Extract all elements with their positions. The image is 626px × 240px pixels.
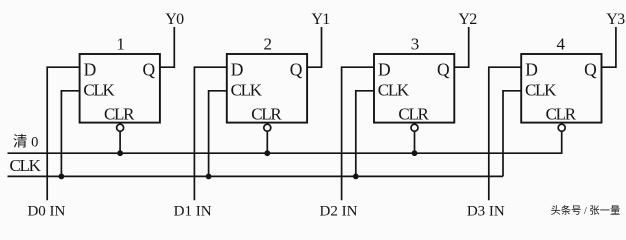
svg-text:Q: Q xyxy=(290,60,303,80)
junction dot CLK bus / U2 CLK xyxy=(206,174,212,180)
wire D2 input to U3.D xyxy=(342,67,374,200)
svg-text:CLK: CLK xyxy=(525,80,557,99)
wire U4.Q to Y3 xyxy=(602,27,616,67)
wire D3 input to U4.D xyxy=(489,67,521,200)
svg-text:CLR: CLR xyxy=(546,104,577,123)
svg-text:4: 4 xyxy=(557,34,566,53)
wire CLK bus to U4.CLK xyxy=(503,91,521,177)
clear bus (qing 0 line) xyxy=(8,131,562,154)
junction dot clear bus / U2 CLR xyxy=(264,150,270,156)
junction dot CLK bus / U1 CLK xyxy=(59,174,65,180)
wire U3 CLR bubble to clear bus xyxy=(414,131,416,154)
wire U2.Q to Y1 xyxy=(307,27,321,67)
svg-text:Q: Q xyxy=(584,60,597,80)
svg-text:Y1: Y1 xyxy=(311,11,330,28)
wire U1.Q to Y0 xyxy=(160,27,174,67)
svg-text:Y3: Y3 xyxy=(606,11,625,28)
svg-text:CLR: CLR xyxy=(251,104,282,123)
svg-text:CLR: CLR xyxy=(398,104,429,123)
junction dot clear bus / U3 CLR xyxy=(412,150,418,156)
svg-text:Y2: Y2 xyxy=(458,11,477,28)
wire CLK bus to U3.CLK xyxy=(356,91,374,177)
svg-text:D1 IN: D1 IN xyxy=(174,204,212,220)
svg-text:3: 3 xyxy=(411,34,420,53)
svg-text:1: 1 xyxy=(116,34,125,53)
svg-text:CLK: CLK xyxy=(378,80,410,99)
flip-flop U1 body xyxy=(80,54,160,123)
svg-text:D3 IN: D3 IN xyxy=(467,204,505,220)
svg-text:D: D xyxy=(378,60,391,80)
svg-text:Y0: Y0 xyxy=(165,11,184,28)
svg-text:D: D xyxy=(84,60,97,80)
flip-flop U2 body xyxy=(227,54,307,123)
wire D0 input to U1.D xyxy=(47,67,79,200)
svg-text:CLK: CLK xyxy=(10,156,42,175)
svg-text:CLK: CLK xyxy=(231,80,263,99)
flip-flop U3 body xyxy=(374,54,454,123)
svg-text:D: D xyxy=(231,60,244,80)
svg-text:Q: Q xyxy=(437,60,450,80)
wire U1 CLR bubble to clear bus xyxy=(119,131,121,154)
wire U3.Q to Y2 xyxy=(454,27,468,67)
wire CLK bus to U1.CLK xyxy=(61,91,79,177)
svg-text:D0 IN: D0 IN xyxy=(27,204,65,220)
wire D1 input to U2.D xyxy=(194,67,226,200)
svg-text:2: 2 xyxy=(264,34,273,53)
CLR bubble U4 xyxy=(558,124,565,131)
flip-flop U4 body xyxy=(521,54,601,123)
CLR bubble U2 xyxy=(264,124,271,131)
svg-text:头条号 / 张一量: 头条号 / 张一量 xyxy=(551,204,621,217)
junction dot clear bus / U1 CLR xyxy=(117,150,123,156)
svg-text:D2 IN: D2 IN xyxy=(320,204,358,220)
CLR bubble U3 xyxy=(411,124,418,131)
svg-text:CLK: CLK xyxy=(83,80,115,99)
junction dot CLK bus / U3 CLK xyxy=(353,174,359,180)
svg-text:D: D xyxy=(525,60,538,80)
svg-text:CLR: CLR xyxy=(104,104,135,123)
svg-text:Q: Q xyxy=(143,60,156,80)
svg-text:清 0: 清 0 xyxy=(13,133,38,150)
CLK bus line xyxy=(8,175,504,177)
wire CLK bus to U2.CLK xyxy=(209,91,227,177)
CLR bubble U1 xyxy=(117,124,124,131)
wire U2 CLR bubble to clear bus xyxy=(266,131,268,154)
